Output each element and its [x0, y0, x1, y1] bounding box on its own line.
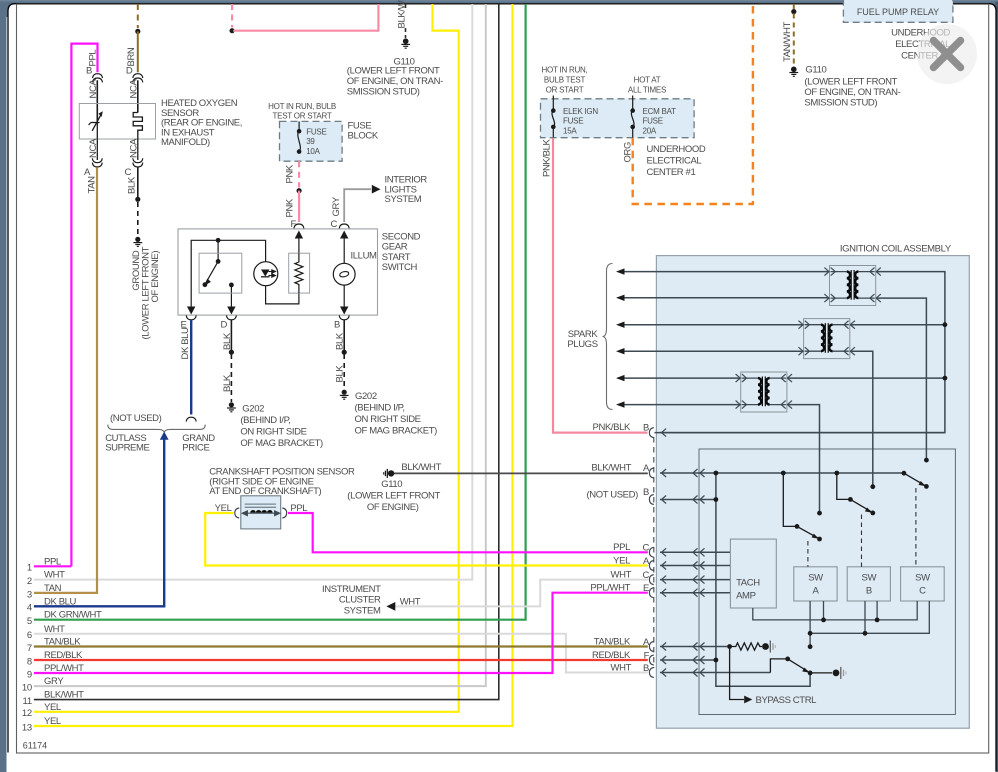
svg-text:61174: 61174: [23, 741, 47, 751]
ILLUM bulb: [333, 263, 355, 285]
svg-text:BLK: BLK: [335, 365, 346, 383]
svg-text:SWITCH: SWITCH: [382, 262, 418, 273]
svg-text:G202: G202: [242, 404, 264, 415]
svg-text:A: A: [643, 463, 650, 474]
svg-text:4: 4: [27, 603, 32, 614]
SW A box: [794, 567, 837, 601]
up arrow pin F: [295, 231, 303, 239]
svg-text:OF ENGINE, ON TRAN-: OF ENGINE, ON TRAN-: [804, 87, 900, 98]
wire WHT vertical (row 2 feed): [34, 4, 472, 580]
wire PNK jog to top: [233, 4, 378, 31]
svg-text:BLK: BLK: [335, 332, 346, 350]
svg-text:DK BLU: DK BLU: [180, 327, 191, 360]
svg-text:OF ENGINE): OF ENGINE): [367, 502, 419, 513]
svg-text:DK GRN/WHT: DK GRN/WHT: [44, 610, 102, 621]
wire bypass ctrl from TAN/BLK junction: [730, 647, 744, 700]
svg-text:FUSE: FUSE: [306, 128, 326, 137]
svg-text:(LOWER LEFT FRONT: (LOWER LEFT FRONT: [804, 77, 897, 88]
SW C box: [901, 567, 945, 601]
TACH AMP box: [730, 539, 776, 608]
pin A BLK/WHT row: [649, 468, 653, 478]
control dash SW C: [915, 488, 917, 567]
svg-text:(LOWER LEFT FRONT: (LOWER LEFT FRONT: [347, 66, 440, 77]
svg-text:BRN: BRN: [126, 47, 137, 66]
junction dot: [229, 350, 234, 355]
svg-text:TACH: TACH: [736, 578, 760, 589]
svg-text:TAN: TAN: [44, 583, 62, 594]
svg-text:HOT IN RUN, BULB: HOT IN RUN, BULB: [268, 102, 336, 111]
ignition module (inner box): [699, 449, 955, 715]
wire PNK dashed below fuse 39: [298, 161, 300, 187]
wire bypass arm to pickup: [810, 672, 832, 674]
svg-text:AT END OF CRANKSHAFT): AT END OF CRANKSHAFT): [209, 486, 321, 497]
svg-text:PNK: PNK: [285, 198, 296, 217]
svg-text:SYSTEM: SYSTEM: [344, 605, 381, 616]
fuel pump relay housing: [843, 0, 953, 22]
svg-text:1: 1: [27, 563, 32, 574]
spark plug line 6: [618, 404, 741, 406]
resistor element: [295, 253, 303, 293]
wire SW B right leg to H1: [876, 601, 878, 620]
svg-text:ECM BAT: ECM BAT: [643, 107, 677, 116]
wire coil 2 primary bottom to SW B contact: [850, 351, 873, 487]
resistor box: [289, 253, 310, 293]
pin B WHT row: [649, 668, 653, 678]
svg-text:MANIFOLD): MANIFOLD): [161, 137, 210, 148]
wire BRN solid to pin D: [137, 31, 139, 72]
svg-text:ELECTRICAL: ELECTRICAL: [647, 156, 702, 167]
down arrows pins E D B: [187, 307, 195, 315]
svg-text:NCA: NCA: [88, 79, 99, 99]
svg-text:3: 3: [27, 589, 32, 600]
elek ign fuse element: [552, 96, 555, 127]
switch wiring inside: [191, 235, 344, 307]
up arrow pin C: [340, 231, 348, 239]
svg-text:PNK: PNK: [285, 164, 296, 183]
svg-text:HOT IN RUN,: HOT IN RUN,: [542, 66, 588, 75]
heated oxygen sensor box: [79, 104, 155, 140]
wire coil 2 primary top to B+ bus: [850, 324, 945, 326]
pin C PPL row: [649, 547, 653, 557]
pin B PNK/BLK: arc, chevron: [649, 428, 653, 438]
ground G110 (top middle): [403, 38, 409, 44]
second gear start switch box: [178, 229, 378, 315]
wire coil 1 primary bottom to SW C contact: [876, 298, 927, 460]
svg-text:G202: G202: [355, 391, 377, 402]
pin B not used row: [649, 495, 653, 505]
junction dot B+ bus coil2: [943, 322, 948, 327]
connectors E D B below box: [186, 315, 196, 319]
svg-text:(LOWER LEFT FRONT: (LOWER LEFT FRONT: [347, 491, 440, 502]
svg-text:8: 8: [27, 656, 32, 667]
connector B (mated pair): [93, 74, 103, 78]
wire WHT row 6 to module pin B: [34, 634, 648, 673]
wire BLK dashed to G202: [343, 354, 345, 390]
wire SW B left leg to H2: [864, 601, 866, 633]
svg-text:YEL: YEL: [44, 716, 61, 727]
close button: [917, 24, 977, 84]
junction dot row B: [714, 497, 719, 502]
wire BLK/WHT G110 to module pin A: [391, 472, 648, 474]
wire BLK vertical (row 11 feed): [34, 4, 499, 700]
svg-text:7: 7: [27, 643, 32, 654]
ground G202 (pin B): [340, 390, 349, 400]
svg-text:ON RIGHT SIDE: ON RIGHT SIDE: [355, 414, 421, 425]
wire GRY vertical (row 10 feed): [34, 4, 486, 686]
svg-text:9: 9: [27, 669, 32, 680]
junction dot BLK: [135, 197, 140, 202]
connector F: [294, 224, 304, 228]
wire PPL/WHT row 9 to module pin E: [34, 593, 648, 673]
wire PNK dashed from top: [231, 4, 233, 28]
svg-text:SYSTEM: SYSTEM: [385, 194, 422, 205]
svg-text:10: 10: [22, 683, 32, 694]
LED indicator: [254, 262, 278, 286]
svg-text:SW: SW: [808, 573, 823, 584]
heater resistor element (right): [133, 113, 142, 161]
interior lights system arrow: [372, 185, 381, 194]
svg-text:ELEK IGN: ELEK IGN: [563, 107, 598, 116]
fuse block (fuse 39 housing): [280, 121, 343, 161]
wire DK BLU pin E to connector: [190, 320, 192, 415]
tach filter resistor on TAN/BLK row: [727, 644, 732, 649]
wire PNK/BLK from elek ign fuse to module pin B: [553, 138, 648, 433]
ground G110 (module): [388, 470, 394, 476]
bypass switch: [770, 659, 786, 673]
pin A TAN/BLK row: [649, 642, 653, 652]
svg-text:PNK/BLK: PNK/BLK: [593, 422, 632, 433]
svg-text:ORG: ORG: [623, 142, 634, 163]
svg-text:WHT: WHT: [44, 624, 65, 635]
ground (lower left front of engine): [133, 237, 142, 247]
svg-text:GRY: GRY: [44, 676, 64, 687]
svg-text:13: 13: [22, 722, 32, 733]
instrument cluster arrow: [386, 602, 395, 611]
wire WHT module pin C to instrument cluster: [390, 580, 648, 607]
control dash SW A: [807, 541, 809, 567]
svg-text:WHT: WHT: [400, 597, 421, 608]
ignition coil assembly (outer blue box): [656, 256, 969, 729]
svg-text:(BEHIND I/P,: (BEHIND I/P,: [240, 415, 290, 426]
svg-text:2: 2: [27, 576, 32, 587]
junction dot row A: [714, 471, 719, 476]
spark plug line 3: [618, 324, 804, 326]
svg-text:G110: G110: [805, 65, 826, 76]
svg-text:10A: 10A: [306, 147, 320, 156]
svg-text:WHT: WHT: [44, 570, 65, 581]
svg-text:SMISSION STUD): SMISSION STUD): [804, 98, 877, 109]
junction dot PNK: [297, 188, 302, 193]
svg-text:OF MAG BRACKET): OF MAG BRACKET): [355, 425, 438, 436]
junction dot: [342, 350, 347, 355]
svg-text:BLK/WHT: BLK/WHT: [397, 0, 408, 29]
crank pickup symbol (bypass): [833, 670, 840, 677]
SW B box: [847, 567, 890, 601]
svg-text:PNK/BLK: PNK/BLK: [542, 138, 553, 177]
pin C WHT row: [649, 575, 653, 585]
svg-text:TAN/WHT: TAN/WHT: [782, 22, 793, 62]
svg-text:CENTER #1: CENTER #1: [647, 167, 696, 178]
wire PPL row 1: [34, 565, 72, 567]
svg-text:A: A: [813, 586, 820, 597]
wire YEL crank sensor to module pin A: [205, 513, 648, 566]
wire NCA left (pin B into sensor): [96, 80, 98, 121]
crankshaft position sensor body: [241, 496, 281, 529]
pin F RED/BLK row: [649, 655, 653, 665]
switch contacts: [216, 238, 221, 243]
junction dot row F: [714, 658, 719, 663]
svg-text:HOT AT: HOT AT: [634, 76, 661, 85]
spark plug line 1: [618, 271, 830, 273]
svg-text:ON RIGHT SIDE: ON RIGHT SIDE: [240, 427, 306, 438]
wire BLK/WHT dashed from top to G110: [405, 4, 407, 9]
connector at GRAND PRICE: [186, 417, 196, 421]
pin A YEL row: [649, 561, 653, 571]
svg-text:B: B: [643, 487, 649, 498]
spark plug line 2: [618, 297, 830, 299]
svg-text:FUEL PUMP RELAY: FUEL PUMP RELAY: [857, 7, 939, 17]
wire BLK pin D: [230, 320, 232, 352]
svg-text:TAN: TAN: [86, 176, 97, 194]
svg-text:AMP: AMP: [736, 591, 755, 602]
wire RED/BLK row 8: [34, 659, 648, 661]
ecm bat fuse element: [631, 96, 634, 127]
svg-text:PPL: PPL: [44, 556, 61, 567]
connector C: [339, 224, 349, 228]
bypass ctrl arrow: [744, 696, 752, 704]
wire DK GRN/WHT vertical (row 5 feed): [34, 4, 526, 620]
svg-text:B: B: [866, 586, 872, 597]
fuse 39 element: [298, 121, 301, 151]
svg-text:BLK: BLK: [222, 374, 233, 392]
ignition coil 2: [799, 319, 855, 359]
wire coil 3 primary top to B+ bus: [787, 377, 945, 379]
svg-text:NCA: NCA: [128, 79, 139, 99]
svg-text:6: 6: [27, 630, 32, 641]
svg-text:BLK/WHT: BLK/WHT: [591, 462, 631, 473]
spark plugs brace: [603, 264, 613, 410]
wire YEL vertical (row 12 feed, jogs at top): [34, 4, 459, 712]
svg-text:B: B: [334, 320, 340, 331]
inner switch box: [199, 253, 242, 293]
connector A (mated pair): [92, 158, 102, 162]
wire GRY from switch pin C to interior lights: [344, 189, 371, 222]
wire BLK dashed to G202: [230, 354, 232, 402]
svg-text:39: 39: [306, 137, 315, 146]
svg-text:SMISSION STUD): SMISSION STUD): [347, 87, 420, 98]
wire BRN dashed to top: [137, 4, 139, 28]
svg-text:D: D: [221, 320, 228, 331]
svg-text:TEST OR START: TEST OR START: [273, 111, 332, 120]
bypass throw contact: [808, 644, 813, 649]
svg-text:BLK: BLK: [222, 332, 233, 350]
crank sensor internals: [245, 503, 277, 505]
switch B (coil 2 driver): [837, 473, 871, 512]
svg-text:PPL: PPL: [88, 50, 99, 67]
wire YEL vertical 2 (row 13 feed): [34, 4, 513, 726]
svg-text:BULB TEST: BULB TEST: [544, 76, 586, 85]
svg-text:OF ENGINE, ON TRAN-: OF ENGINE, ON TRAN-: [347, 76, 443, 87]
svg-text:NCA: NCA: [128, 138, 139, 158]
wire PNK solid to switch pin F: [298, 191, 300, 222]
svg-text:OR START: OR START: [546, 86, 584, 95]
variable sense element (left): [89, 114, 102, 160]
ignition coil 1: [824, 266, 880, 306]
wire B+ bus from coil 1 to PNK/BLK pin row: [655, 272, 945, 433]
ignition coil 3: [736, 372, 792, 412]
svg-text:TAN/BLK: TAN/BLK: [44, 637, 81, 648]
svg-text:15A: 15A: [563, 127, 577, 136]
svg-text:(NOT USED): (NOT USED): [586, 489, 638, 500]
control dash SW B: [861, 515, 863, 567]
wire coil 3 primary bottom to SW A contact: [787, 405, 820, 513]
svg-text:(BEHIND I/P,: (BEHIND I/P,: [355, 402, 405, 413]
wire PPL crank sensor to module pin C: [288, 513, 648, 552]
spark plug line 5: [618, 377, 741, 379]
wire PPL from oxygen sensor pin B to row 1: [71, 44, 97, 567]
spark plug line 4: [618, 350, 804, 352]
svg-text:PLUGS: PLUGS: [567, 339, 597, 350]
connector left: [235, 508, 239, 518]
connector C (mated pair): [133, 158, 143, 162]
wire common vertical (pins A,B,F to bypass): [716, 473, 810, 686]
svg-text:FUSE: FUSE: [643, 117, 663, 126]
svg-text:(NOT USED): (NOT USED): [110, 413, 162, 424]
junction dot BRN: [135, 29, 140, 34]
junction dot PNK: [230, 28, 235, 33]
svg-text:PPL/WHT: PPL/WHT: [44, 663, 84, 674]
svg-text:C: C: [919, 586, 926, 597]
wire H2 SW A left leg to SW C right leg: [810, 601, 929, 647]
svg-text:SW: SW: [862, 573, 877, 584]
svg-text:PRICE: PRICE: [182, 443, 209, 454]
wire TACH AMP to H1: [753, 601, 917, 620]
brace fork CUTLASS/GRAND: [108, 425, 205, 433]
svg-text:5: 5: [27, 616, 32, 627]
ground G110 (top right): [791, 67, 797, 73]
svg-text:DK BLU: DK BLU: [44, 596, 77, 607]
wire TAN/BLK row 7: [34, 645, 648, 647]
svg-text:BLK/WHT: BLK/WHT: [44, 690, 84, 701]
connector right: [282, 508, 286, 518]
connector D (mated pair): [133, 74, 143, 78]
svg-text:CLUSTER: CLUSTER: [339, 594, 381, 605]
svg-text:GRY: GRY: [331, 196, 342, 216]
svg-text:SW: SW: [915, 573, 930, 584]
svg-text:20A: 20A: [643, 127, 657, 136]
crank pickup symbol (tach): [762, 643, 769, 650]
wire SW A right leg to H1: [823, 601, 825, 620]
svg-text:YEL: YEL: [44, 702, 61, 713]
junction dot B+ bus coil3: [943, 376, 948, 381]
wire TAN/WHT dashed to G110: [793, 4, 795, 10]
svg-text:11: 11: [23, 696, 32, 707]
svg-text:C: C: [125, 167, 132, 178]
wire BLK dashed to ground: [137, 202, 139, 236]
svg-text:SUPREME: SUPREME: [105, 443, 149, 454]
wire DK BLU grand price to row 4: [34, 434, 164, 606]
switch C (coil 1 driver): [904, 473, 925, 485]
svg-text:IGNITION COIL ASSEMBLY: IGNITION COIL ASSEMBLY: [840, 243, 952, 254]
svg-text:BYPASS CTRL: BYPASS CTRL: [756, 695, 817, 706]
wire ORG dashed from ecm bat fuse up to fuel pump relay: [633, 4, 753, 204]
pin E PPL/WHT row: [649, 588, 653, 598]
switch A (coil 3 driver): [783, 473, 817, 538]
svg-text:OF ENGINE): OF ENGINE): [150, 251, 161, 303]
connector body dashed line at module pins: [653, 437, 655, 668]
svg-text:12: 12: [22, 708, 32, 719]
svg-text:FUSE: FUSE: [563, 117, 583, 126]
svg-text:BLK: BLK: [126, 176, 137, 194]
svg-text:A: A: [84, 167, 91, 178]
svg-text:RED/BLK: RED/BLK: [44, 650, 83, 661]
up arrow on DK BLU: [160, 432, 169, 440]
wire BLK pin B: [343, 320, 345, 352]
svg-text:OF MAG BRACKET): OF MAG BRACKET): [240, 438, 323, 449]
ground G202 (pin D): [227, 402, 236, 412]
svg-text:NCA: NCA: [88, 138, 99, 158]
svg-text:INSTRUMENT: INSTRUMENT: [322, 584, 381, 595]
svg-text:BLOCK: BLOCK: [348, 131, 379, 142]
svg-text:UNDERHOOD: UNDERHOOD: [647, 144, 706, 155]
svg-text:ILLUM: ILLUM: [351, 251, 378, 262]
svg-text:G110: G110: [381, 479, 402, 490]
wire BLK from sensor pin C: [137, 167, 139, 199]
underhood electrical center #1 fuse housing: [541, 99, 695, 138]
wire NCA right (pin D into sensor): [137, 80, 139, 112]
svg-text:BLK/WHT: BLK/WHT: [401, 462, 441, 473]
svg-text:ALL TIMES: ALL TIMES: [628, 86, 666, 95]
svg-text:B: B: [643, 422, 649, 433]
wire TAN from sensor pin A down to row 3: [34, 167, 97, 593]
